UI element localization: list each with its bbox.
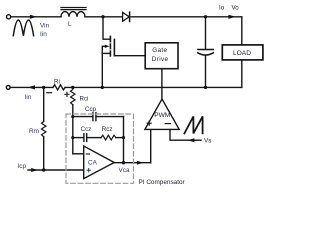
svg-text:Vin: Vin: [40, 23, 50, 30]
node Ccp branch left: [71, 115, 74, 118]
svg-text:Gate: Gate: [152, 47, 167, 54]
svg-text:L: L: [68, 21, 72, 28]
svg-text:Ccp: Ccp: [85, 106, 97, 113]
arrow Vca (right): [137, 161, 144, 165]
resistor Rm: [42, 122, 46, 137]
wire Ccz to Rcz: [87, 137, 101, 139]
svg-text:Iin: Iin: [25, 94, 32, 101]
wire to CA minus input: [73, 153, 84, 155]
svg-text:Rm: Rm: [29, 128, 39, 135]
inductor L core bar 1: [61, 7, 86, 9]
capacitor Co top plate: [198, 49, 213, 51]
resistor Rcz: [101, 135, 116, 140]
svg-text:LOAD: LOAD: [233, 50, 251, 57]
svg-text:PWM: PWM: [154, 112, 170, 119]
diode D: [123, 12, 130, 21]
svg-text:Vs: Vs: [204, 138, 211, 145]
MOSFET Q1 body arrow: [102, 45, 109, 48]
wire Icp input: [28, 169, 44, 171]
arrow Vs (left): [188, 138, 195, 142]
svg-text:CA: CA: [88, 160, 98, 167]
wire inductor to diode: [85, 16, 123, 18]
wire Rm column top: [43, 87, 45, 121]
node Ccz branch left: [71, 136, 74, 139]
node MOSFET source on rail: [101, 86, 104, 89]
svg-text:Vo: Vo: [232, 5, 240, 12]
wire bottom rail left segment: [10, 86, 53, 88]
capacitor Co bottom lead: [205, 55, 207, 87]
svg-text:Iin: Iin: [40, 31, 47, 38]
wire Rci column down: [72, 105, 74, 154]
node Icp junction: [42, 168, 45, 171]
MOSFET Q1 gate bar: [113, 39, 115, 55]
node Rm tap: [42, 86, 45, 89]
wire Rcz to right column: [116, 137, 124, 139]
svg-text:Drive: Drive: [152, 56, 169, 63]
arrow Io current direction (right): [228, 15, 235, 19]
svg-text:Ri: Ri: [54, 79, 60, 86]
wire Ccp branch left: [73, 116, 93, 118]
svg-text:Io: Io: [219, 5, 225, 12]
svg-text:Rci: Rci: [80, 95, 89, 102]
wire CA output to PWM: [114, 162, 151, 164]
node Rcz branch right: [122, 136, 125, 139]
wire Icp to CA plus input: [44, 169, 84, 171]
arrow Iin return (left): [28, 85, 35, 89]
node capacitor bottom on rail: [204, 86, 207, 89]
capacitor Co bottom curved plate: [198, 53, 214, 55]
terminal bottom-left input: [6, 86, 10, 90]
wire top rail from input terminal to inductor: [11, 16, 61, 18]
dashed box PI compensator: [66, 114, 134, 183]
node CA output: [122, 161, 125, 164]
svg-text:Vca: Vca: [119, 167, 130, 174]
wire up to PWM plus input: [150, 129, 152, 162]
resistor Ri: [53, 85, 65, 90]
arrow Icp (right): [31, 168, 38, 172]
MOSFET Q1 drain lead: [103, 17, 110, 39]
node switch junction: [101, 15, 104, 18]
wire PWM minus input to Vs: [170, 129, 201, 140]
wire Ccz branch left: [73, 137, 84, 139]
wire Ccp branch right: [96, 116, 123, 118]
MOSFET Q1 source stub: [102, 52, 110, 54]
svg-text:Icp: Icp: [18, 163, 27, 170]
wire diode to output corner: [131, 16, 242, 18]
node Rci tap: [71, 86, 74, 89]
MOSFET Q1 channel bar top: [109, 36, 111, 41]
MOSFET Q1 source lead down: [101, 46, 103, 87]
comparator PWM: [145, 99, 179, 129]
wire load bottom to rail: [241, 60, 243, 88]
wire gate to gate drive: [114, 55, 145, 57]
terminal top-left input: [7, 15, 11, 19]
svg-text:Rcz: Rcz: [102, 126, 113, 133]
capacitor Ccz plates: [84, 134, 87, 142]
wire Rm column bottom: [43, 137, 45, 170]
node capacitor top: [204, 15, 207, 18]
svg-text:PI Compensator: PI Compensator: [139, 179, 186, 186]
inductor L winding: [61, 12, 85, 17]
MOSFET Q1 channel bar bottom: [109, 51, 111, 56]
svg-text:Ccz: Ccz: [81, 126, 92, 133]
gate drive box: [145, 43, 178, 69]
wire gate drive down to PWM apex: [161, 69, 163, 99]
wire output corner down to load: [241, 17, 243, 45]
label plus of Ri: [65, 92, 69, 96]
resistor Rci: [71, 87, 75, 104]
arrow Iin current direction (right): [30, 15, 37, 19]
label minus of Ri: [47, 92, 52, 94]
rectified sine source symbol: [13, 20, 33, 36]
op-amp CA: [84, 146, 115, 179]
capacitor Co top lead: [205, 17, 207, 49]
MOSFET Q1 channel bar middle: [109, 44, 111, 49]
load box: [222, 45, 263, 60]
inductor L core bar 2: [61, 9, 86, 11]
capacitor Ccp plates: [93, 113, 96, 121]
sawtooth ramp symbol: [184, 116, 202, 133]
wire bottom rail right segment: [65, 86, 242, 88]
wire feedback right column: [123, 117, 125, 163]
